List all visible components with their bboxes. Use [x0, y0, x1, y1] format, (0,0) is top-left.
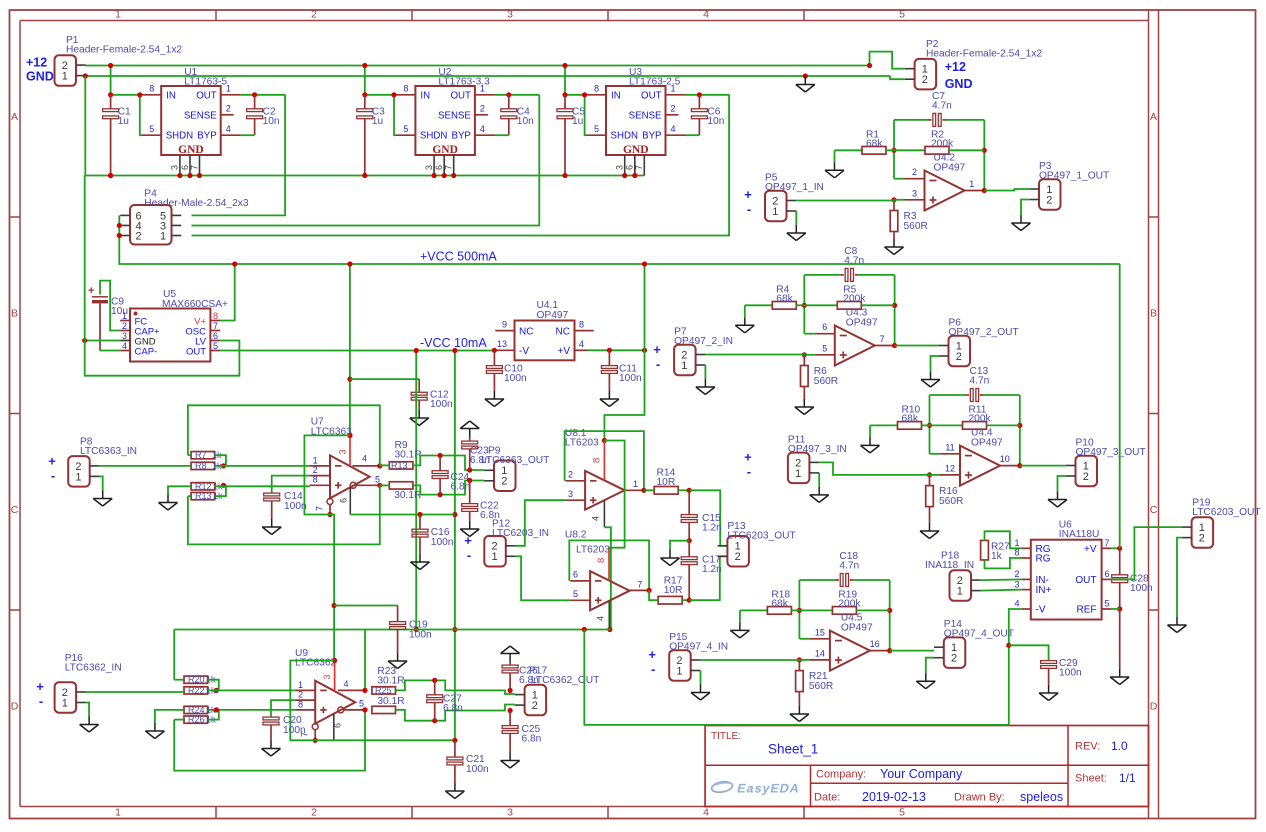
svg-text:4: 4 — [703, 807, 709, 819]
junction — [467, 467, 472, 472]
svg-text:RG: RG — [1036, 554, 1051, 565]
svg-text:Company:: Company: — [816, 769, 866, 781]
capacitor C17 1.2n — [688, 541, 690, 557]
junction — [642, 261, 647, 266]
wire mid to ground — [670, 541, 689, 550]
svg-text:INA118U: INA118U — [1059, 529, 1100, 540]
wire out- jog — [413, 481, 484, 495]
ground — [930, 372, 932, 380]
wire loop verticals — [929, 395, 931, 454]
wire P2 pin2 to GND — [890, 76, 905, 79]
svg-text:8: 8 — [298, 699, 303, 709]
header P3 — [1039, 179, 1061, 210]
svg-text:1: 1 — [62, 71, 68, 83]
svg-text:LTC6203_OUT: LTC6203_OUT — [1192, 507, 1260, 518]
svg-text:200k: 200k — [969, 414, 992, 425]
wire P19 pin2 ground — [1177, 538, 1182, 617]
resistor R17 10R — [658, 596, 682, 604]
svg-text:2: 2 — [313, 465, 318, 475]
junction — [108, 173, 113, 178]
wire input header pin1 to ground — [818, 473, 820, 487]
capacitor C18 4.7n — [799, 579, 835, 581]
wire shdn tie — [140, 95, 141, 135]
wire to P13 pin2 — [689, 556, 727, 600]
wire U7 out4 — [353, 465, 380, 467]
svg-text:8: 8 — [313, 475, 318, 485]
svg-text:5: 5 — [213, 341, 218, 351]
junction — [891, 197, 896, 202]
svg-text:SHDN: SHDN — [420, 131, 447, 142]
resistor R13 1k — [191, 492, 215, 499]
junction — [506, 92, 511, 97]
svg-text:10: 10 — [1000, 454, 1010, 464]
wire out4 loop — [364, 630, 366, 691]
svg-text:3: 3 — [170, 165, 180, 170]
wire +12 riser — [565, 66, 586, 95]
junction — [452, 738, 457, 743]
junction — [137, 92, 142, 97]
svg-text:3: 3 — [507, 9, 513, 21]
svg-text:R20: R20 — [188, 675, 205, 685]
junction — [177, 173, 182, 178]
svg-text:2: 2 — [568, 470, 573, 480]
svg-text:OUT: OUT — [186, 346, 206, 357]
svg-text:10u: 10u — [111, 306, 128, 317]
svg-text:-VCC 10mA: -VCC 10mA — [420, 336, 487, 350]
svg-text:OP497: OP497 — [846, 317, 878, 328]
junction — [867, 63, 872, 68]
svg-text:4: 4 — [362, 454, 367, 464]
junction — [1017, 423, 1022, 428]
svg-text:SHDN: SHDN — [611, 131, 638, 142]
svg-text:4: 4 — [591, 516, 601, 521]
junction — [892, 343, 897, 348]
svg-text:BYP: BYP — [197, 131, 216, 142]
wire R27 to RG pins — [985, 531, 1022, 548]
capacitor C20 100n — [263, 717, 279, 720]
svg-text:+: + — [744, 187, 752, 202]
junction — [438, 492, 443, 497]
junction — [887, 648, 892, 653]
svg-text:560R: 560R — [814, 376, 838, 387]
junction — [432, 718, 437, 723]
svg-text:D: D — [1150, 701, 1158, 713]
junction — [562, 173, 567, 178]
wire non-inverting input — [810, 659, 830, 661]
svg-text:1k: 1k — [991, 551, 1003, 562]
wire input header pin1 to ground — [795, 211, 797, 225]
svg-text:560R: 560R — [904, 221, 928, 232]
wire OUT to P19 — [1111, 527, 1182, 579]
svg-text:MAX660CSA+: MAX660CSA+ — [162, 299, 228, 310]
svg-text:2: 2 — [922, 74, 928, 86]
svg-text:TITLE:: TITLE: — [711, 731, 741, 742]
pin4 V- U8.1 — [603, 501, 605, 528]
ground — [167, 495, 169, 503]
svg-text:100n: 100n — [619, 373, 642, 384]
wire -VCC drop B — [454, 351, 456, 741]
junction — [377, 463, 382, 468]
svg-text:100n: 100n — [466, 764, 489, 775]
header P9 — [494, 461, 516, 492]
svg-text:LTC6362: LTC6362 — [295, 658, 336, 669]
wire inverting input — [804, 333, 815, 335]
ground — [669, 550, 671, 558]
svg-text:R13: R13 — [195, 491, 212, 501]
junction — [887, 608, 892, 613]
resistor R24 1k — [184, 706, 208, 713]
header P7 — [674, 345, 696, 376]
svg-text:1: 1 — [671, 84, 676, 94]
junction — [417, 512, 422, 517]
resistor R26 1k — [184, 716, 208, 723]
ground — [893, 239, 895, 247]
junction — [214, 707, 219, 712]
wire R13 jog — [215, 485, 226, 496]
junction — [622, 173, 627, 178]
svg-text:3: 3 — [122, 331, 127, 341]
header P11 — [788, 453, 810, 484]
junction — [347, 433, 352, 438]
junction — [687, 488, 692, 493]
svg-text:1.0: 1.0 — [1111, 739, 1128, 753]
resistor R8 1k — [191, 462, 215, 469]
wire -VCC drop A — [415, 351, 417, 630]
svg-text:1: 1 — [75, 471, 81, 483]
svg-text:5: 5 — [822, 343, 827, 353]
junction — [432, 173, 437, 178]
wire out to R17 — [649, 590, 658, 600]
svg-text:+: + — [744, 449, 752, 464]
header P13 — [727, 536, 749, 567]
wire LV loop — [85, 341, 240, 376]
svg-text:100n: 100n — [284, 501, 307, 512]
wire R20 jog — [208, 680, 219, 691]
svg-text:7: 7 — [880, 334, 885, 344]
svg-text:1u: 1u — [372, 116, 383, 127]
resistor R18 68k — [739, 610, 741, 622]
svg-text:C: C — [1150, 504, 1158, 516]
header P15 — [669, 650, 691, 681]
junction — [197, 173, 202, 178]
op-amp U7 LTC6363 — [330, 455, 370, 498]
header P1 — [55, 55, 77, 86]
wire feedback top loop — [188, 405, 380, 466]
svg-text:OP497: OP497 — [934, 162, 966, 173]
IC U6 INA118U — [1031, 540, 1102, 620]
pin4 V- U8.2 — [608, 601, 610, 630]
svg-text:1: 1 — [313, 455, 318, 465]
wire input header pin1 to ground — [700, 671, 702, 685]
junction — [347, 433, 352, 438]
svg-text:C: C — [11, 504, 19, 516]
svg-text:-: - — [656, 356, 660, 371]
capacitor C29 100n — [1009, 645, 1049, 660]
svg-text:OP497_2_OUT: OP497_2_OUT — [949, 327, 1019, 338]
svg-text:R25: R25 — [375, 685, 392, 695]
svg-text:30.1R: 30.1R — [377, 696, 404, 707]
svg-text:NC: NC — [556, 326, 570, 337]
svg-text:7: 7 — [189, 165, 199, 170]
wire input- row (R12 to ground) — [168, 486, 191, 494]
svg-text:7: 7 — [1105, 538, 1110, 548]
wire P12 pin1 to U8.2 +in — [516, 556, 571, 600]
svg-text:12: 12 — [945, 463, 955, 473]
header P2 — [915, 59, 937, 90]
wire input to +in — [796, 200, 894, 202]
svg-text:2: 2 — [226, 104, 231, 114]
svg-text:OP497_4_OUT: OP497_4_OUT — [944, 629, 1014, 640]
wire U9 shdn tie — [290, 661, 334, 741]
wire P18 to IN-/IN+ — [981, 578, 1022, 581]
capacitor C21 100n — [454, 740, 456, 757]
svg-text:-V: -V — [1036, 605, 1046, 616]
svg-text:LTC6203_IN: LTC6203_IN — [492, 528, 549, 539]
wire P8 pin1 ground — [100, 476, 103, 490]
header P4 (2x3) — [130, 205, 172, 245]
svg-text:U8.2: U8.2 — [565, 530, 587, 541]
wire input header pin1 to ground — [704, 365, 706, 379]
wire +12 riser — [365, 66, 396, 95]
svg-text:OUT: OUT — [641, 90, 662, 101]
svg-text:1: 1 — [298, 680, 303, 690]
svg-text:2: 2 — [956, 351, 962, 363]
svg-text:OP497_4_IN: OP497_4_IN — [669, 641, 728, 652]
svg-text:REF: REF — [1077, 605, 1097, 616]
ground — [744, 317, 746, 325]
wire shdn tie to V+ — [304, 435, 350, 514]
svg-text:2: 2 — [912, 167, 917, 177]
svg-text:3: 3 — [424, 165, 434, 170]
pin8 V+ — [603, 441, 605, 481]
svg-text:4: 4 — [122, 341, 127, 351]
wire -VCC rail — [220, 350, 494, 352]
junction — [362, 63, 367, 68]
wire OUT — [241, 94, 285, 96]
svg-text:68k: 68k — [902, 414, 919, 425]
svg-text:10n: 10n — [707, 116, 724, 127]
wire P14 pin2 to ground — [926, 658, 934, 674]
resistor R20 1k — [184, 676, 208, 683]
capacitor C16 100n — [419, 515, 421, 530]
wire U2 OUT to P4 pin3 — [192, 95, 540, 226]
svg-text:+: + — [36, 679, 44, 694]
wire +V net — [588, 349, 645, 351]
junction — [508, 708, 513, 713]
wire output — [1000, 465, 1020, 467]
svg-text:7: 7 — [444, 165, 454, 170]
svg-text:+: + — [464, 533, 472, 548]
svg-text:4: 4 — [671, 124, 676, 134]
wire +VCC to U9 pin3 — [334, 661, 336, 692]
svg-text:GND: GND — [623, 144, 649, 156]
ground — [929, 523, 931, 531]
svg-text:2: 2 — [298, 690, 303, 700]
svg-text:2: 2 — [122, 321, 127, 331]
svg-text:4: 4 — [703, 9, 709, 21]
resistor 30.1R bottom — [372, 706, 396, 713]
junction — [892, 303, 897, 308]
svg-text:10n: 10n — [263, 116, 280, 127]
resistor 30.1R (bottom) — [389, 482, 413, 489]
svg-text:R26: R26 — [188, 715, 205, 725]
wire P1 gnd riser — [84, 76, 86, 176]
wire U8.1 feedback — [565, 431, 644, 490]
svg-text:+12: +12 — [945, 60, 966, 74]
pin6 V- U9 — [333, 714, 335, 741]
capacitor bypass 10n — [254, 95, 256, 109]
resistor R5 200k — [804, 304, 837, 306]
svg-text:LT6203: LT6203 — [565, 438, 599, 449]
wire U5 GND — [85, 340, 121, 342]
junction — [442, 173, 447, 178]
svg-text:+: + — [648, 647, 656, 662]
wire +VCC drop to U7 — [349, 264, 351, 435]
svg-text:R24: R24 — [188, 705, 205, 715]
junction — [451, 173, 456, 178]
svg-text:SENSE: SENSE — [438, 110, 471, 121]
junction — [982, 148, 987, 153]
capacitor input 1u — [364, 95, 366, 109]
svg-text:1: 1 — [115, 9, 121, 21]
svg-text:1u: 1u — [572, 116, 583, 127]
capacitor C24 6.8n — [439, 456, 441, 471]
svg-text:2: 2 — [135, 230, 141, 242]
ground — [869, 437, 871, 445]
junction — [432, 678, 437, 683]
op-amp U4.5 — [830, 631, 870, 671]
junction — [414, 627, 419, 632]
svg-text:7: 7 — [315, 506, 325, 511]
junction — [108, 173, 113, 178]
capacitor C27 6.8n — [434, 680, 436, 694]
svg-text:-: - — [747, 201, 751, 216]
svg-text:OP497_3_IN: OP497_3_IN — [788, 444, 847, 455]
svg-text:2: 2 — [532, 700, 538, 712]
svg-text:Sheet:: Sheet: — [1075, 773, 1107, 785]
svg-text:OP497: OP497 — [537, 310, 569, 321]
wire V+ down to U9 — [330, 515, 334, 661]
ground — [700, 685, 702, 693]
svg-text:7: 7 — [637, 580, 642, 590]
wire inverting input — [930, 453, 941, 455]
svg-text:IN: IN — [420, 90, 430, 101]
ground — [102, 491, 104, 499]
ground — [803, 399, 805, 407]
resistor R2 200k — [894, 149, 925, 151]
wire output — [875, 345, 895, 347]
svg-text:IN+: IN+ — [1036, 585, 1052, 596]
svg-text:6: 6 — [573, 570, 578, 580]
svg-text:Date:: Date: — [814, 792, 840, 804]
svg-text:100n: 100n — [504, 373, 527, 384]
svg-text:3: 3 — [568, 489, 573, 499]
ground — [798, 706, 800, 714]
svg-text:6: 6 — [434, 165, 444, 170]
ground — [270, 741, 272, 749]
ground — [154, 723, 156, 731]
svg-text:A: A — [11, 111, 18, 123]
junction — [332, 658, 337, 663]
ground (up) — [509, 654, 511, 662]
svg-text:R22: R22 — [188, 685, 205, 695]
junction — [467, 478, 472, 483]
svg-text:6: 6 — [822, 322, 827, 332]
svg-text:8: 8 — [596, 558, 607, 563]
svg-text:11: 11 — [945, 442, 954, 452]
svg-text:1.2n: 1.2n — [702, 523, 722, 534]
svg-text:LTC6362_IN: LTC6362_IN — [65, 663, 122, 674]
svg-text:4: 4 — [1014, 599, 1019, 609]
wire P16.2 to R22 and pin1 — [86, 691, 184, 693]
header P6 — [949, 336, 971, 367]
resistor R4 68k — [744, 305, 746, 317]
wire non-inverting input — [905, 199, 925, 201]
ground — [804, 77, 806, 85]
svg-text:B: B — [1150, 308, 1157, 320]
junction — [214, 688, 219, 693]
junction — [252, 92, 257, 97]
svg-text:8: 8 — [592, 458, 603, 463]
svg-text:1: 1 — [115, 807, 121, 819]
svg-text:OP497_2_IN: OP497_2_IN — [674, 336, 733, 347]
regulator U1 — [161, 86, 221, 155]
wire inverting input — [894, 178, 905, 180]
junction — [221, 463, 226, 468]
svg-text:2: 2 — [735, 551, 741, 563]
capacitor C9 10u — [100, 281, 120, 331]
junction — [108, 63, 113, 68]
svg-text:Header-Female-2.54_1x2: Header-Female-2.54_1x2 — [66, 45, 182, 56]
svg-text:13: 13 — [497, 339, 507, 349]
svg-text:4.7n: 4.7n — [839, 561, 859, 572]
svg-text:2: 2 — [671, 104, 676, 114]
pin8 V+ U8.2 — [608, 548, 610, 581]
svg-text:10n: 10n — [517, 116, 534, 127]
ground — [271, 519, 273, 527]
svg-text:OP497: OP497 — [971, 437, 1003, 448]
wire REF to ground — [1111, 608, 1120, 610]
wire P16 pin1 ground — [86, 703, 89, 717]
svg-text:LT1763-5: LT1763-5 — [184, 77, 227, 88]
ground — [418, 410, 420, 418]
junction — [347, 261, 352, 266]
capacitor C15 1.2n — [688, 490, 690, 514]
svg-text:1: 1 — [969, 179, 974, 189]
wire Vocm / C14 — [272, 476, 310, 494]
junction — [602, 438, 607, 443]
wire OUT — [686, 94, 730, 96]
svg-text:+: + — [48, 454, 56, 469]
junction — [687, 538, 692, 543]
svg-text:7: 7 — [213, 321, 218, 331]
svg-text:6.8n: 6.8n — [443, 703, 463, 714]
junction — [82, 338, 87, 343]
junction — [927, 472, 932, 477]
capacitor C28 100n — [1119, 548, 1121, 575]
header P16 — [55, 682, 77, 713]
svg-text:200k: 200k — [843, 294, 866, 305]
svg-text:R13: R13 — [391, 460, 408, 470]
svg-text:6: 6 — [339, 498, 349, 503]
junction — [313, 738, 318, 743]
header P8 — [68, 456, 90, 487]
junction — [332, 603, 337, 608]
junction — [508, 688, 513, 693]
junction — [582, 92, 587, 97]
svg-text:REV:: REV: — [1075, 741, 1100, 753]
svg-text:BYP: BYP — [452, 131, 471, 142]
